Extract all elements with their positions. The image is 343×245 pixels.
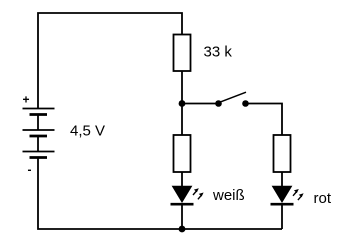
svg-text:33 k: 33 k: [204, 44, 233, 61]
wire: switch to right branch down to R3: [246, 104, 283, 136]
svg-text:+: +: [22, 93, 29, 107]
resistor R2: [174, 135, 191, 172]
svg-text:rot: rot: [314, 190, 332, 207]
LED D1 light arrow 1: [193, 188, 199, 195]
LED D2 light arrow 1: [293, 189, 299, 196]
resistor R3: [274, 135, 291, 172]
wire: R3 to LED D2: [281, 172, 283, 187]
LED D2 light arrow 2: [298, 193, 304, 200]
svg-text:weiß: weiß: [212, 187, 245, 204]
wire: node A to switch: [182, 103, 219, 105]
resistor R1: [174, 35, 191, 72]
LED D2 (rot) triangle: [273, 186, 292, 202]
battery B1 (4,5 V): [23, 109, 55, 158]
svg-text:-: -: [28, 163, 32, 177]
wire: battery positive up and across top to right branch: [38, 13, 182, 109]
LED D2 cathode bar: [271, 203, 294, 206]
bottom junction dot: [179, 226, 186, 233]
wire: battery negative down and across bottom: [38, 158, 282, 230]
switch S1 blade (open): [220, 92, 247, 102]
node A junction dot: [179, 100, 186, 107]
LED D1 (weiß) triangle: [173, 186, 192, 202]
wire: R1 to R2 through node A: [181, 71, 183, 135]
wire: LED D2 to bottom rail: [281, 204, 283, 229]
wire: R2 to LED D1: [181, 172, 183, 187]
wire: LED D1 to bottom rail: [181, 204, 183, 229]
switch S1 left terminal: [215, 100, 222, 107]
switch S1 right terminal: [242, 100, 249, 107]
LED D1 light arrow 2: [198, 193, 204, 200]
LED D1 cathode bar: [171, 203, 194, 206]
svg-text:4,5 V: 4,5 V: [70, 122, 105, 139]
